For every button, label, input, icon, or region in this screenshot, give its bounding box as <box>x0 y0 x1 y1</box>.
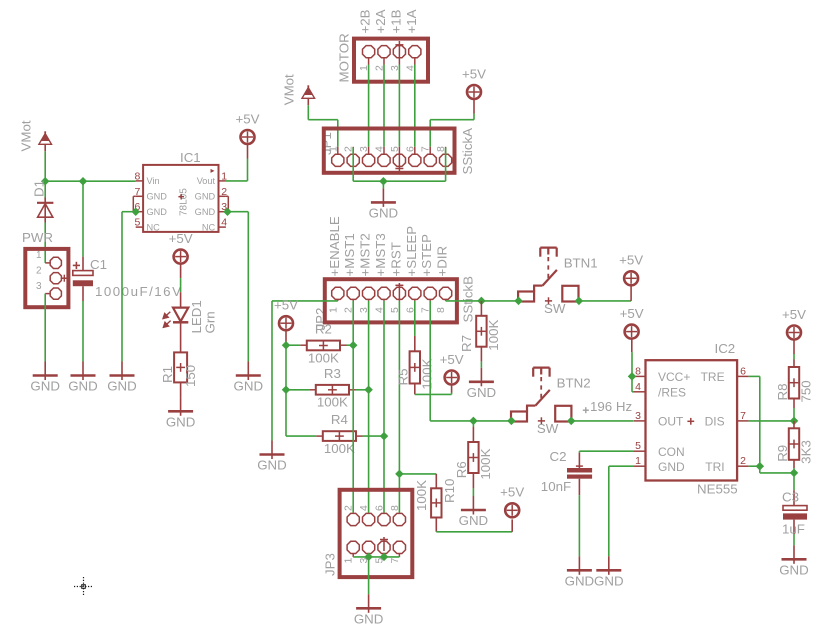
svg-text:GND: GND <box>234 379 264 394</box>
svg-text:+1A: +1A <box>404 9 419 33</box>
svg-text:TRI: TRI <box>705 460 724 474</box>
svg-text:NC: NC <box>147 222 161 232</box>
svg-text:VMot: VMot <box>282 74 297 105</box>
svg-text:5: 5 <box>134 217 140 229</box>
svg-text:R9: R9 <box>775 445 790 462</box>
svg-text:3: 3 <box>36 281 42 292</box>
svg-text:PWR: PWR <box>22 230 53 245</box>
svg-text:GND: GND <box>147 192 168 202</box>
svg-text:OUT: OUT <box>658 415 684 429</box>
svg-text:8: 8 <box>635 365 641 377</box>
svg-text:+MST3: +MST3 <box>373 233 388 276</box>
svg-text:NC: NC <box>202 222 216 232</box>
svg-text:Grn: Grn <box>203 311 218 333</box>
svg-text:750: 750 <box>799 380 814 402</box>
svg-text:+SLEEP: +SLEEP <box>404 226 419 277</box>
svg-text:8: 8 <box>134 170 140 182</box>
svg-text:150: 150 <box>183 365 198 387</box>
svg-text:▸: ▸ <box>211 166 215 175</box>
svg-text:GND: GND <box>459 513 489 528</box>
svg-text:C1: C1 <box>90 257 107 272</box>
svg-text:R5: R5 <box>396 369 411 386</box>
svg-text:MOTOR: MOTOR <box>337 33 352 82</box>
svg-text:100K: 100K <box>486 320 501 351</box>
svg-text:4: 4 <box>635 381 641 393</box>
svg-text:+2A: +2A <box>373 9 388 33</box>
svg-text:GND: GND <box>594 574 624 589</box>
svg-text:4: 4 <box>358 505 370 511</box>
svg-text:7: 7 <box>389 558 401 564</box>
svg-text:GND: GND <box>257 458 287 473</box>
svg-text:1: 1 <box>635 455 641 467</box>
svg-text:+MST2: +MST2 <box>358 233 373 276</box>
svg-text:NE555: NE555 <box>697 482 738 497</box>
svg-text:+5V: +5V <box>274 298 298 313</box>
svg-text:SW: SW <box>537 421 559 436</box>
svg-text:+RST: +RST <box>388 242 403 276</box>
svg-text:+5V: +5V <box>169 231 193 246</box>
svg-text:GND: GND <box>195 207 216 217</box>
svg-text:3K3: 3K3 <box>799 440 814 464</box>
svg-text:R10: R10 <box>442 479 457 503</box>
svg-text:100K: 100K <box>478 448 493 479</box>
svg-text:+MST1: +MST1 <box>342 233 357 276</box>
svg-text:R6: R6 <box>454 461 469 478</box>
svg-text:+5V: +5V <box>620 306 644 321</box>
svg-text:GND: GND <box>658 460 685 474</box>
svg-text:+5V: +5V <box>462 66 486 81</box>
svg-text:7: 7 <box>740 410 746 422</box>
svg-text:+5V: +5V <box>500 485 524 500</box>
svg-text:+1B: +1B <box>388 9 403 33</box>
svg-text:IC1: IC1 <box>180 150 201 165</box>
svg-text:2: 2 <box>36 266 42 277</box>
svg-text:+STEP: +STEP <box>419 234 434 277</box>
svg-text:+5V: +5V <box>619 253 643 268</box>
svg-text:100K: 100K <box>308 350 339 365</box>
svg-text:GND: GND <box>107 379 137 394</box>
svg-text:SStickA: SStickA <box>460 128 475 175</box>
svg-text:78L05: 78L05 <box>178 188 189 216</box>
svg-text:C3: C3 <box>782 490 799 505</box>
svg-text:GND: GND <box>30 379 60 394</box>
svg-text:6: 6 <box>374 505 386 511</box>
svg-text:+DIR: +DIR <box>435 246 450 277</box>
svg-text:TRE: TRE <box>701 370 725 384</box>
svg-text:6: 6 <box>740 365 746 377</box>
svg-text:10nF: 10nF <box>541 479 571 494</box>
svg-text:+5V: +5V <box>782 307 806 322</box>
svg-text:R1: R1 <box>160 366 175 383</box>
svg-text:CON: CON <box>658 445 685 459</box>
svg-text:SStickB: SStickB <box>461 276 476 323</box>
svg-text:8: 8 <box>435 307 447 313</box>
svg-text:C2: C2 <box>550 449 567 464</box>
svg-text:JP3: JP3 <box>323 553 338 576</box>
svg-text:1uF: 1uF <box>782 522 805 537</box>
svg-text:IC2: IC2 <box>715 341 736 356</box>
svg-text:196 Hz: 196 Hz <box>590 399 632 414</box>
svg-text:1000uF/16V: 1000uF/16V <box>95 284 182 299</box>
svg-text:R3: R3 <box>324 366 341 381</box>
svg-text:R8: R8 <box>775 384 790 401</box>
svg-text:R7: R7 <box>459 335 474 352</box>
svg-text:VMot: VMot <box>19 120 34 151</box>
svg-text:2: 2 <box>343 505 355 511</box>
svg-text:GND: GND <box>354 612 384 627</box>
svg-text:D1: D1 <box>31 180 46 197</box>
svg-text:GND: GND <box>166 415 196 430</box>
svg-text:R4: R4 <box>331 412 348 427</box>
svg-text:1: 1 <box>343 558 355 564</box>
svg-text:4: 4 <box>221 217 227 229</box>
svg-text:DIS: DIS <box>705 415 725 429</box>
svg-text:2: 2 <box>740 455 746 467</box>
svg-text:1: 1 <box>327 307 339 313</box>
svg-text:GND: GND <box>195 192 216 202</box>
svg-text:+2B: +2B <box>358 9 373 33</box>
svg-text:VCC+: VCC+ <box>658 370 690 384</box>
svg-text:GND: GND <box>369 206 399 221</box>
svg-text:+5V: +5V <box>440 352 464 367</box>
svg-text:+5V: +5V <box>235 111 259 126</box>
svg-text:100K: 100K <box>420 358 435 389</box>
svg-text:1: 1 <box>36 250 42 261</box>
svg-text:R2: R2 <box>315 322 332 337</box>
svg-text:BTN2: BTN2 <box>557 376 591 391</box>
svg-text:100K: 100K <box>324 441 355 456</box>
svg-text:/RES: /RES <box>658 386 686 400</box>
svg-text:GND: GND <box>565 574 595 589</box>
svg-text:GND: GND <box>147 207 168 217</box>
svg-text:3: 3 <box>635 410 641 422</box>
svg-text:GND: GND <box>68 379 98 394</box>
svg-text:5: 5 <box>635 440 641 452</box>
svg-text:8: 8 <box>389 505 401 511</box>
svg-text:GND: GND <box>779 563 809 578</box>
svg-text:Vin: Vin <box>147 176 160 186</box>
svg-text:Vout: Vout <box>197 176 216 186</box>
svg-text:SW: SW <box>544 301 566 316</box>
svg-text:BTN1: BTN1 <box>564 256 598 271</box>
svg-text:100K: 100K <box>317 395 348 410</box>
svg-text:GND: GND <box>467 385 497 400</box>
svg-text:100K: 100K <box>414 480 429 511</box>
svg-text:+ENABLE: +ENABLE <box>327 216 342 276</box>
